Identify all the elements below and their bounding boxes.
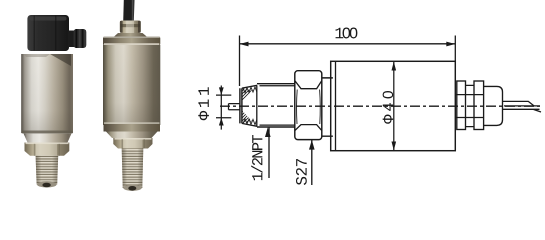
sensor2 threaded stud xyxy=(122,149,144,189)
sensor2 stud tip xyxy=(123,185,142,191)
neck section outer xyxy=(257,84,295,127)
thread zigzag bottom xyxy=(243,119,257,125)
sensor2 cylindrical body xyxy=(103,45,160,125)
thread chamfer hatch upper xyxy=(242,88,252,101)
sensor2 body top bevel xyxy=(103,37,160,46)
thread crest top (tapered) xyxy=(242,85,257,88)
sensor2 body bottom bevel xyxy=(104,122,160,124)
sensor2 gland cone xyxy=(112,33,149,39)
sensor1 hex nut xyxy=(25,143,70,156)
main body phi40 xyxy=(331,61,456,150)
sensor2 shoulder xyxy=(106,132,158,139)
sensor2 cable gland nut xyxy=(120,21,141,34)
sensor1 stud tip xyxy=(37,181,57,187)
label phi11 xyxy=(198,87,209,120)
sensor1 DIN connector block xyxy=(27,15,69,51)
sensor1 connector cable gland stub xyxy=(68,31,75,48)
thread zigzag top xyxy=(243,87,257,93)
dim phi11 line xyxy=(220,86,222,130)
thread chamfer hatch lower xyxy=(242,110,252,123)
sensor2 hex nut xyxy=(113,138,152,149)
dim phi40 arrows xyxy=(392,62,397,71)
neck section inner edges xyxy=(260,86,295,125)
thread end vertical xyxy=(256,85,258,126)
gland slab A xyxy=(457,81,466,130)
label 100 xyxy=(336,28,358,39)
leader 1/2NPT arrow and line xyxy=(265,127,271,137)
dim 100 line xyxy=(240,43,456,45)
dim phi40 line xyxy=(393,62,395,150)
leader S27 arrow and line xyxy=(309,140,315,150)
sensor1 threaded stud xyxy=(36,156,59,185)
sensor2 cable xyxy=(123,0,134,22)
dim 100 right extension line xyxy=(454,36,456,62)
gland nut body xyxy=(484,86,503,125)
sensor1 cylindrical body xyxy=(21,54,73,133)
hex nut S27 outline xyxy=(295,71,322,140)
dim 100 left extension line xyxy=(239,36,241,87)
hex nut side arcs xyxy=(297,90,321,125)
dim phi11 arrows xyxy=(219,87,224,95)
sensor1 connector shadow on body xyxy=(50,54,71,66)
centerline xyxy=(220,105,540,107)
sensor1 body bottom edge xyxy=(22,131,73,134)
cable outline xyxy=(503,101,542,112)
thread end face xyxy=(240,88,242,123)
dim 100 arrows xyxy=(240,42,249,47)
gland mid section xyxy=(466,85,474,126)
body front edge line xyxy=(335,61,337,150)
label S27 xyxy=(296,159,307,185)
gland slab B xyxy=(474,81,484,130)
thread crest bottom (tapered) xyxy=(242,123,257,126)
gland band lines xyxy=(455,95,483,118)
neck between hex and body xyxy=(322,78,333,136)
dim phi11 extension lines xyxy=(216,95,231,118)
hex nut top facets xyxy=(295,81,322,89)
cable wire solid centerline xyxy=(504,105,540,107)
sensor1 shoulder xyxy=(24,134,72,143)
hex nut bottom facets xyxy=(295,125,322,131)
label 1/2NPT xyxy=(251,135,262,180)
port tube protrusion xyxy=(229,104,241,110)
label phi40 xyxy=(383,91,394,124)
